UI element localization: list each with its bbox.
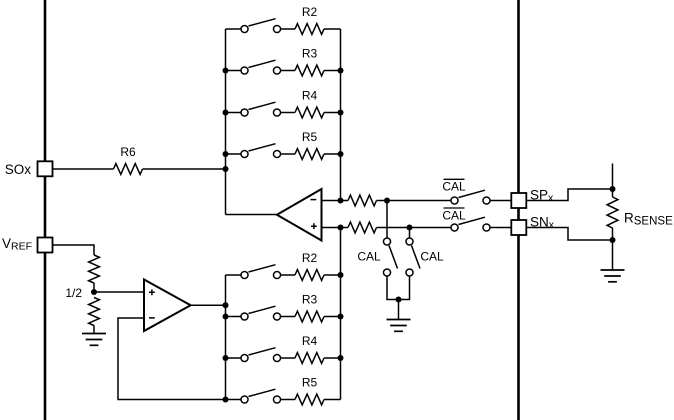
wire: left rail to switch (R3 top row) (226, 70, 242, 72)
wire: resistor R2 to right rail (bottom) (324, 274, 341, 276)
wire: - path down to CAL switch A (386, 201, 388, 239)
switch CAL-bar (SNx path) (451, 224, 458, 231)
wire: resistor R3 to right rail (bottom) (324, 316, 341, 318)
svg-text:R3: R3 (302, 47, 318, 61)
wire: left rail to switch (R4 top row) (226, 112, 242, 114)
divider resistor (lower 1/2) (89, 298, 100, 326)
wire: CAL switch B to common node (399, 276, 410, 300)
wire: U2 feedback (118, 318, 226, 400)
junction dot U1 + input / bottom right rail (338, 225, 344, 231)
svg-text:CAL: CAL (357, 250, 381, 264)
wire: Rsense bottom lead (612, 228, 614, 240)
svg-text:R5: R5 (302, 376, 318, 390)
junction dot right rail row R2 (bottom) (338, 272, 344, 278)
ground (CAL switches) (387, 319, 411, 321)
wire: VREF to divider (53, 245, 95, 255)
svg-text:SOx: SOx (5, 162, 32, 177)
resistor R2 (top bank) (295, 24, 324, 35)
label CAL-bar (SNx path) (442, 208, 466, 223)
resistor RSENSE (607, 197, 618, 228)
wire: left rail to switch (R5 bottom row) (226, 399, 242, 401)
junction dot + path / cal switch B (407, 225, 413, 231)
junction dot U2 output / rail (223, 302, 229, 308)
junction dot right rail row R4 (top) (338, 110, 344, 116)
wire: switch to resistor R5 top (280, 153, 295, 155)
wire: switch to resistor R2 bottom (280, 274, 295, 276)
U1 non-inverting input sign (+) (311, 223, 317, 229)
wire: bottom bank right rail (340, 228, 342, 400)
svg-text:CAL: CAL (420, 250, 444, 264)
wire: CAL switch A to common node (387, 276, 399, 300)
svg-text:R4: R4 (302, 334, 318, 348)
switch CAL-bar (SPx path) (451, 197, 458, 204)
junction dot CAL common node (396, 297, 402, 303)
input resistor (- path) (348, 195, 377, 206)
pin SNx pad (511, 220, 526, 235)
U1 inverting input sign (-) (311, 199, 317, 201)
wire: divider tap to U2 + input (94, 291, 144, 293)
junction dot Rsense bottom (610, 237, 616, 243)
junction dot left rail row R4 (top) (223, 110, 229, 116)
wire: divider upper to tap (93, 283, 95, 292)
junction dot left rail row R5 (top) (223, 151, 229, 157)
wire: switch to resistor R2 top (280, 28, 295, 30)
left bus (VREF/SOx rail) (44, 0, 47, 420)
wire: U1 non-inverting input (322, 227, 341, 229)
wire: SPx to Rsense top node (526, 189, 612, 201)
junction dot Rsense top (610, 186, 616, 192)
wire R6 to summing rail (143, 168, 226, 170)
wire: resistor R5 to right rail (top) (324, 153, 341, 155)
wire: SNx to Rsense bottom node (526, 228, 612, 241)
switch CAL A (shorting) (383, 238, 390, 245)
divider resistor (upper 1/2) (89, 255, 100, 283)
wire: resistor R4 to right rail (top) (324, 112, 341, 114)
svg-text:CAL: CAL (442, 209, 466, 223)
wire: top bank left rail (225, 29, 227, 215)
wire: stub above Rsense (612, 164, 614, 190)
svg-text:R2: R2 (302, 5, 318, 19)
junction dot right rail row R4 (bottom) (338, 355, 344, 361)
junction dot left rail row R5 (bottom) (223, 397, 229, 403)
pin VREF pad (38, 238, 53, 253)
switch S5b (series with R5 bottom) (241, 396, 248, 403)
wire: left rail to switch (R4 bottom row) (226, 357, 242, 359)
resistor R5 (top bank) (295, 149, 324, 160)
wire: + path down to CAL switch B (409, 228, 411, 239)
wire: dot to input resistor (- path) (341, 200, 349, 202)
switch S4a (series with R4 top) (241, 109, 248, 116)
resistor R4 (top bank) (295, 107, 324, 118)
wire: resistor R2 to right rail (top) (324, 28, 341, 30)
resistor R6 (114, 164, 143, 175)
ground (RSENSE) (601, 269, 625, 271)
switch S2b (series with R2 bottom) (241, 271, 248, 278)
svg-text:VREF: VREF (2, 236, 32, 253)
resistor R4 (bottom bank) (295, 353, 324, 364)
junction dot right rail row R3 (bottom) (338, 314, 344, 320)
svg-text:RSENSE: RSENSE (624, 211, 673, 228)
wire: switch to resistor R4 bottom (280, 357, 295, 359)
resistor R5 (bottom bank) (295, 394, 324, 405)
label CAL-bar (SPx path) (442, 179, 466, 193)
wire SOx to R6 (53, 168, 114, 170)
wire: resistor to CAL switch (- path) (377, 200, 452, 202)
junction dot left rail row R3 (top) (223, 68, 229, 74)
svg-text:R3: R3 (302, 293, 318, 307)
wire: U2 output to bottom left rail (191, 304, 226, 306)
wire: switch to resistor R3 top (280, 70, 295, 72)
junction dot R6/rail (223, 166, 229, 172)
junction dot right rail row R5 (top) (338, 151, 344, 157)
junction dot divider tap (91, 289, 97, 295)
switch S5a (series with R5 top) (241, 150, 248, 157)
U2 inverting input sign (-) (149, 317, 155, 319)
switch S3b (series with R3 bottom) (241, 313, 248, 320)
wire: left rail to switch (R5 top row) (226, 153, 242, 155)
svg-text:R2: R2 (302, 251, 318, 265)
switch S3a (series with R3 top) (241, 67, 248, 74)
wire: resistor R5 to right rail (bottom) (324, 399, 341, 401)
wire: Rsense top lead (612, 189, 614, 197)
wire: bottom bank left rail (225, 275, 227, 400)
wire: U1 inverting input (322, 200, 341, 202)
junction dot - path / cal switch A (384, 198, 390, 204)
svg-text:SNx: SNx (530, 215, 555, 232)
pin SPx pad (511, 193, 526, 208)
wire: left rail to switch (R2 top row) (226, 28, 242, 30)
wire: resistor R4 to right rail (bottom) (324, 357, 341, 359)
wire: left rail to switch (R3 bottom row) (226, 316, 242, 318)
wire: U1 output to left rail (226, 214, 277, 216)
svg-text:R6: R6 (120, 145, 136, 159)
pin SOx pad (38, 161, 53, 176)
junction dot left rail row R3 (bottom) (223, 314, 229, 320)
wire: left rail to switch (R2 bottom row) (226, 274, 242, 276)
switch S4b (series with R4 bottom) (241, 354, 248, 361)
junction dot right rail row R3 (top) (338, 68, 344, 74)
svg-text:1/2: 1/2 (65, 286, 82, 300)
resistor R3 (top bank) (295, 65, 324, 76)
svg-text:R4: R4 (302, 89, 318, 103)
resistor R2 (bottom bank) (295, 270, 324, 281)
op-amp U1 (main amplifier) (277, 189, 322, 241)
wire: CAL-bar switch to SNx (490, 227, 512, 229)
wire: dot to input resistor (+ path) (341, 227, 349, 229)
svg-text:R5: R5 (302, 130, 318, 144)
wire: resistor to CAL switch (+ path) (377, 227, 452, 229)
wire: switch to resistor R5 bottom (280, 399, 295, 401)
op-amp U2 (reference buffer, pointing right) (144, 280, 191, 332)
junction dot left rail row R4 (bottom) (223, 355, 229, 361)
resistor R3 (bottom bank) (295, 311, 324, 322)
ground (VREF divider) (82, 333, 106, 335)
svg-text:CAL: CAL (442, 180, 466, 194)
wire: divider lower to ground (93, 326, 95, 334)
junction dot U1 - input / top right rail (338, 198, 344, 204)
wire: CAL common node to ground (398, 300, 400, 320)
wire: switch to resistor R4 top (280, 112, 295, 114)
input resistor (+ path) (348, 222, 377, 233)
switch S2a (series with R2 top) (241, 25, 248, 32)
wire: top bank right rail (340, 29, 342, 201)
wire: switch to resistor R3 bottom (280, 316, 295, 318)
wire: Rsense node to ground (612, 240, 614, 270)
svg-text:SPx: SPx (530, 187, 554, 204)
wire: resistor R3 to right rail (top) (324, 70, 341, 72)
switch CAL B (shorting) (406, 238, 413, 245)
wire: CAL-bar switch to SPx (490, 200, 512, 202)
U2 non-inverting input sign (+) (149, 289, 155, 295)
right bus (SPx/SNx rail) (517, 0, 520, 420)
